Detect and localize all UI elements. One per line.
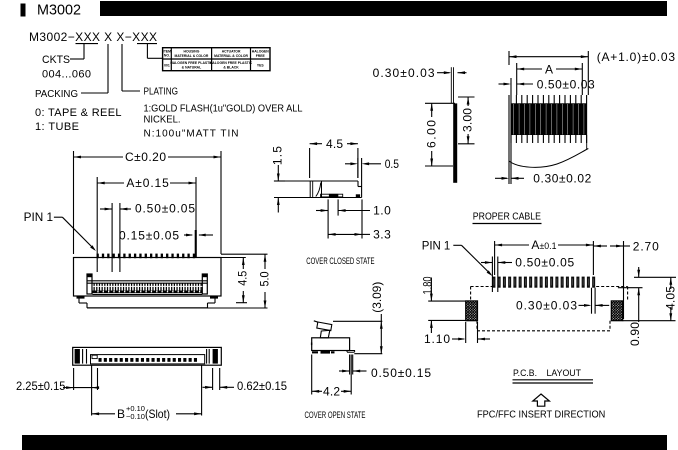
svg-text:(Slot): (Slot) bbox=[145, 407, 170, 421]
svg-text:0.50±0.05: 0.50±0.05 bbox=[515, 256, 574, 270]
svg-text:0.30±0.03: 0.30±0.03 bbox=[516, 299, 577, 313]
svg-text:3.3: 3.3 bbox=[373, 228, 391, 242]
svg-text:MATERIAL & COLOR: MATERIAL & COLOR bbox=[175, 54, 209, 58]
svg-text:4.05: 4.05 bbox=[663, 286, 677, 310]
svg-text:B: B bbox=[117, 407, 125, 421]
svg-text:(A+1.0)±0.03: (A+1.0)±0.03 bbox=[597, 50, 676, 64]
svg-text:0.15±0.05: 0.15±0.05 bbox=[119, 229, 179, 243]
svg-text:5.0: 5.0 bbox=[258, 271, 272, 286]
svg-text:0: TAPE & REEL: 0: TAPE & REEL bbox=[35, 107, 122, 119]
svg-text:4.5: 4.5 bbox=[326, 137, 343, 151]
svg-text:A±0.15: A±0.15 bbox=[126, 176, 169, 190]
svg-text:1.10: 1.10 bbox=[424, 332, 450, 346]
svg-text:0.50±0.03: 0.50±0.03 bbox=[537, 77, 595, 91]
svg-text:0.50±0.15: 0.50±0.15 bbox=[371, 366, 431, 380]
svg-text:HALOGEN FREE PLASTIC: HALOGEN FREE PLASTIC bbox=[210, 61, 253, 65]
svg-text:±0.1: ±0.1 bbox=[540, 241, 557, 252]
svg-text:M3002: M3002 bbox=[37, 2, 81, 19]
svg-text:004...060: 004...060 bbox=[42, 69, 91, 81]
svg-text:4.2: 4.2 bbox=[323, 384, 340, 398]
svg-text:ACTUATOR: ACTUATOR bbox=[222, 50, 241, 54]
svg-text:0.5: 0.5 bbox=[385, 157, 400, 171]
svg-text:1.80: 1.80 bbox=[421, 276, 435, 294]
svg-text:1:GOLD FLASH(1u"GOLD) OVER ALL: 1:GOLD FLASH(1u"GOLD) OVER ALL bbox=[144, 104, 303, 115]
svg-text:PACKING: PACKING bbox=[35, 88, 78, 100]
svg-text:2.70: 2.70 bbox=[633, 239, 659, 253]
svg-text:A: A bbox=[531, 238, 539, 252]
svg-text:NO.: NO. bbox=[164, 54, 170, 58]
svg-text:HALOGEN: HALOGEN bbox=[252, 50, 270, 54]
svg-text:6.00: 6.00 bbox=[424, 120, 438, 148]
svg-text:C±0.20: C±0.20 bbox=[125, 150, 166, 164]
svg-text:0.50±0.05: 0.50±0.05 bbox=[135, 202, 195, 216]
svg-text:NICKEL.: NICKEL. bbox=[144, 115, 181, 126]
svg-text:(3.09): (3.09) bbox=[370, 282, 384, 313]
svg-text:N:100u"MATT TIN: N:100u"MATT TIN bbox=[144, 129, 239, 140]
svg-text:HALOGEN FREE PLASTIC: HALOGEN FREE PLASTIC bbox=[170, 61, 213, 65]
svg-text:0.90: 0.90 bbox=[628, 322, 642, 346]
svg-text:PROPER CABLE: PROPER CABLE bbox=[473, 211, 541, 223]
svg-text:1.5: 1.5 bbox=[271, 146, 285, 165]
svg-text:3.00: 3.00 bbox=[461, 108, 475, 132]
svg-text:1: TUBE: 1: TUBE bbox=[35, 121, 79, 133]
svg-text:COVER OPEN STATE: COVER OPEN STATE bbox=[305, 410, 366, 421]
svg-text:4.5: 4.5 bbox=[236, 271, 250, 286]
svg-text:COVER CLOSED STATE: COVER CLOSED STATE bbox=[306, 256, 374, 267]
svg-text:P.C.B.: P.C.B. bbox=[513, 368, 537, 379]
svg-text:1.0: 1.0 bbox=[373, 204, 391, 218]
svg-text:HOUSING: HOUSING bbox=[184, 50, 200, 54]
svg-text:M3002−XXX X X−XXX: M3002−XXX X X−XXX bbox=[29, 30, 157, 44]
svg-text:MATERIAL & COLOR: MATERIAL & COLOR bbox=[214, 54, 248, 58]
svg-text:PIN 1: PIN 1 bbox=[422, 239, 451, 253]
svg-text:PLATING: PLATING bbox=[144, 86, 179, 98]
svg-text:LAYOUT: LAYOUT bbox=[547, 368, 582, 379]
svg-text:A: A bbox=[545, 63, 553, 77]
svg-text:FREE: FREE bbox=[256, 54, 266, 58]
svg-text:PIN 1: PIN 1 bbox=[24, 210, 54, 224]
svg-text:001: 001 bbox=[164, 64, 170, 68]
svg-text:0.30±0.03: 0.30±0.03 bbox=[373, 66, 435, 80]
svg-text:& BLACK: & BLACK bbox=[223, 65, 239, 69]
svg-text:2.25±0.15: 2.25±0.15 bbox=[16, 379, 66, 393]
svg-text:FPC/FFC INSERT DIRECTION: FPC/FFC INSERT DIRECTION bbox=[477, 409, 605, 421]
svg-text:YES: YES bbox=[257, 64, 265, 68]
svg-text:& NATURAL: & NATURAL bbox=[182, 65, 202, 69]
svg-text:0.30±0.02: 0.30±0.02 bbox=[533, 172, 591, 186]
svg-text:CKTS: CKTS bbox=[42, 54, 70, 66]
svg-text:−0.10: −0.10 bbox=[126, 412, 145, 421]
svg-text:0.62±0.15: 0.62±0.15 bbox=[237, 379, 287, 393]
